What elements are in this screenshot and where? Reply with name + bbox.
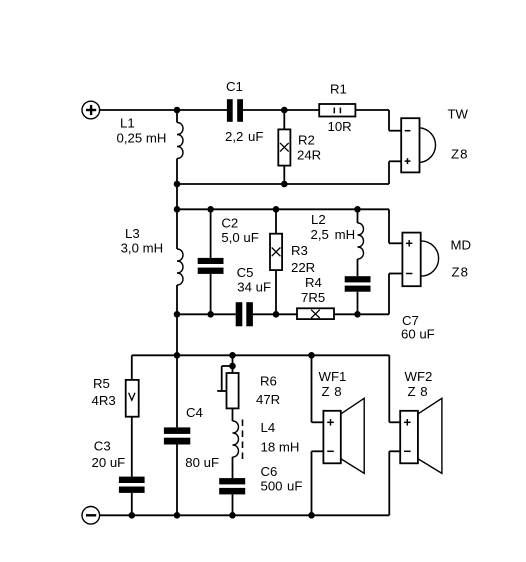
svg-text:Z: Z	[451, 146, 459, 161]
junction top rail at R2	[281, 107, 288, 114]
svg-text:20 uF: 20 uF	[92, 455, 126, 470]
svg-text:L2: L2	[311, 212, 326, 227]
svg-text:0,25 mH: 0,25 mH	[117, 131, 167, 146]
midrange MD	[402, 233, 438, 287]
svg-text:8: 8	[461, 265, 468, 280]
wire woofer top rail	[132, 354, 390, 356]
junction R6 tap	[229, 363, 236, 370]
svg-text:Z: Z	[322, 384, 330, 399]
svg-text:7R5: 7R5	[301, 290, 325, 305]
wire mid spine L1 rail to mid rail	[176, 184, 178, 209]
junction mid top rail at L2	[354, 206, 361, 213]
svg-text:60 uF: 60 uF	[401, 327, 435, 342]
capacitor C5	[236, 302, 253, 326]
resistor R1	[319, 104, 355, 117]
tweeter TW	[401, 118, 435, 172]
svg-text:Z: Z	[408, 384, 416, 399]
svg-text:L1: L1	[120, 116, 135, 131]
resistor R2	[278, 110, 290, 184]
svg-text:C2: C2	[221, 216, 238, 231]
junction bottom rail at C3	[129, 512, 136, 519]
svg-text:C6: C6	[261, 464, 278, 479]
svg-text:uF: uF	[248, 129, 263, 144]
inductor L4	[233, 420, 243, 479]
svg-text:WF1: WF1	[319, 369, 347, 384]
junction mid bottom rail at C2	[207, 311, 214, 318]
resistor R5	[126, 355, 139, 476]
wire plus terminal to C1	[100, 109, 228, 111]
minus terminal	[82, 507, 100, 525]
svg-text:8: 8	[334, 384, 341, 399]
svg-text:10R: 10R	[328, 119, 352, 134]
svg-text:4R3: 4R3	[92, 393, 116, 408]
junction bottom rail at R2	[281, 181, 288, 188]
inductor L3	[177, 209, 183, 314]
svg-text:R5: R5	[93, 376, 110, 391]
wire R6 tap stub	[217, 366, 232, 391]
wire WF1 plus	[312, 355, 324, 422]
junction mid bottom rail at L3	[174, 311, 181, 318]
svg-text:C3: C3	[94, 439, 111, 454]
capacitor C3	[119, 477, 145, 516]
svg-text:500: 500	[261, 479, 283, 494]
svg-text:C5: C5	[237, 265, 254, 280]
svg-text:24R: 24R	[297, 148, 321, 163]
junction bottom rail at C6	[229, 512, 236, 519]
junction top rail at L1	[174, 107, 181, 114]
junction mid bottom rail at R3	[273, 311, 280, 318]
svg-text:L4: L4	[261, 420, 276, 435]
wire WF2 minus	[389, 451, 400, 515]
svg-text:47R: 47R	[256, 392, 280, 407]
junction woofer rail at R6	[229, 352, 236, 359]
svg-text:2,5: 2,5	[311, 227, 329, 242]
svg-text:34 uF: 34 uF	[237, 280, 271, 295]
svg-text:22R: 22R	[291, 260, 315, 275]
wire C1 to R1	[243, 109, 319, 111]
svg-text:Z: Z	[452, 265, 460, 280]
svg-text:8: 8	[420, 384, 427, 399]
wire R1 to TW minus	[355, 110, 401, 131]
wire MD minus	[389, 274, 402, 315]
capacitor C7	[345, 276, 371, 314]
svg-text:R4: R4	[305, 275, 322, 290]
wire WF1 minus	[312, 451, 324, 515]
svg-text:uF: uF	[287, 479, 302, 494]
junction bottom rail at WF1	[308, 512, 315, 519]
svg-text:C1: C1	[226, 79, 243, 94]
svg-text:L3: L3	[125, 226, 140, 241]
svg-text:8: 8	[460, 146, 467, 161]
inductor L1	[177, 110, 183, 184]
svg-text:18 mH: 18 mH	[261, 440, 300, 455]
capacitor C1	[227, 99, 243, 122]
svg-text:5,0 uF: 5,0 uF	[221, 230, 258, 245]
junction mid top rail at L3	[174, 206, 181, 213]
junction bottom rail at C4	[174, 512, 181, 519]
capacitor C2	[198, 209, 224, 314]
junction mid bottom rail at C7	[354, 311, 361, 318]
svg-text:R3: R3	[291, 243, 308, 258]
wire mid top rail	[177, 208, 358, 210]
svg-text:MD: MD	[451, 238, 472, 253]
capacitor C4	[164, 355, 190, 515]
junction bottom rail at L1	[174, 181, 181, 188]
plus terminal	[82, 101, 100, 119]
junction woofer rail at C4	[174, 352, 181, 359]
woofer WF2	[400, 398, 442, 473]
resistor R6	[227, 355, 239, 421]
woofer WF1	[323, 398, 364, 473]
svg-text:R1: R1	[330, 82, 347, 97]
svg-text:3,0 mH: 3,0 mH	[121, 240, 164, 255]
svg-text:2,2: 2,2	[225, 129, 243, 144]
junction mid top rail at R3	[273, 206, 280, 213]
svg-text:TW: TW	[448, 107, 469, 122]
resistor R3	[270, 209, 282, 314]
wire R4 to MD minus corner	[334, 313, 389, 315]
wire mid top rail to MD plus	[358, 209, 403, 243]
svg-text:mH: mH	[335, 227, 356, 242]
capacitor C6	[219, 478, 245, 515]
wire mid bottom rail left	[177, 313, 236, 315]
wire spine mid rail to woofer rail	[176, 314, 178, 355]
svg-text:WF2: WF2	[405, 369, 433, 384]
wire C5 to R4	[253, 313, 297, 315]
svg-text:80 uF: 80 uF	[185, 455, 219, 470]
resistor R4	[297, 308, 334, 319]
inductor L2	[358, 209, 364, 276]
junction mid top rail at C2	[207, 206, 214, 213]
svg-text:C4: C4	[186, 405, 203, 420]
wire WF2 plus	[389, 355, 400, 422]
svg-text:R2: R2	[298, 133, 315, 148]
wire bottom rail	[100, 514, 390, 516]
svg-text:R6: R6	[260, 374, 277, 389]
wire tweeter bottom rail	[177, 161, 401, 184]
junction woofer rail at WF1	[308, 352, 315, 359]
